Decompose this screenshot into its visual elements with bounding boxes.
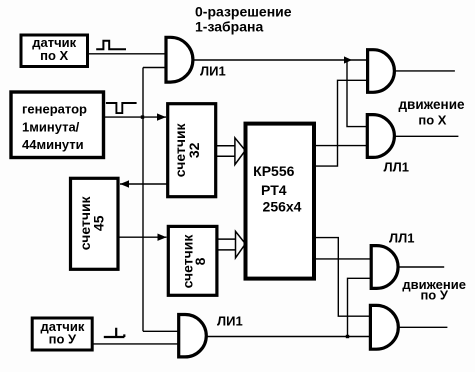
wire trunk to bottom LI1 upper input [143,330,179,332]
svg-text:ЛЛ1: ЛЛ1 [384,160,409,175]
gate LL1b (top right lower) [367,115,394,158]
svg-text:по Х: по Х [418,112,446,127]
wire generator output to counter32 [103,116,166,118]
svg-text:ЛИ1: ЛИ1 [217,313,243,328]
junction dot bottom branch [346,335,349,338]
wire sensorX to LI1 top input [88,53,166,55]
svg-text:движение: движение [398,97,465,112]
box sensor Y [32,318,92,350]
wire gate LL1b output [396,135,459,137]
wire trunk to LI1 top lower input [143,67,166,69]
svg-text:КР556: КР556 [253,163,294,179]
bus arrow counter32 to ROM [217,138,245,165]
svg-text:ЛИ1: ЛИ1 [200,63,226,78]
svg-text:32: 32 [186,142,202,158]
bus arrow counter8 to ROM [217,231,246,258]
svg-text:45: 45 [91,215,107,231]
wire gate LL1d output [399,326,448,328]
box ROM KR556 [246,124,315,279]
svg-text:по У: по У [420,288,448,303]
box counter8 [168,226,217,295]
box counter32 [168,104,216,197]
gate LI1 top [166,37,193,82]
gate LL1a (top right upper) [368,50,395,93]
gate LI1 bottom [179,315,207,357]
svg-text:ЛЛ1: ЛЛ1 [389,230,414,245]
wire branch up to gate LL1c lower input [348,278,371,336]
junction dot generator line [141,115,144,118]
box generator [11,92,104,158]
pulse symbol sensor X [96,41,126,50]
wire counter45 to counter8 [119,236,167,238]
wire bottom LI1 output to gate LL1d lower input [208,336,370,338]
wire vertical branch to gate LL1b upper input [347,60,368,127]
wire LI1 top output to gate LL1a upper input [194,59,368,61]
svg-text:44минути: 44минути [22,137,84,152]
wire ROM out3 down to gate LL1d upper input [315,238,370,317]
wire gate LL1c output [398,266,445,268]
arrowhead into counter8 [158,234,167,241]
box counter45 [71,178,119,269]
svg-text:по У: по У [49,332,77,347]
wire counter32 to counter45 [120,183,167,185]
svg-text:1-забрана: 1-забрана [195,18,263,34]
svg-text:РТ4: РТ4 [261,182,287,198]
arrowhead into counter45 [120,180,129,187]
svg-text:генератор: генератор [22,102,87,117]
pulse symbol generator [106,103,137,113]
wire ROM out1 to gate LL1b lower input [315,145,368,147]
svg-text:256х4: 256х4 [263,198,302,214]
svg-text:0-разрешение: 0-разрешение [195,3,292,19]
wire sensorY output to bottom LI1 lower input [94,343,179,345]
arrowhead junction on LI1 output line [344,56,352,63]
svg-text:по Х: по Х [40,48,68,63]
wire gate LL1a output [396,70,455,72]
box sensor X [21,35,88,67]
pulse symbol sensor Y [104,328,125,337]
svg-text:1минута/: 1минута/ [22,119,80,134]
gate LL1c (bottom right upper) [371,246,398,289]
arrowhead into counter32 [157,113,166,120]
svg-text:8: 8 [192,257,208,265]
wire ROM out2 up to gate LL1a lower input [315,80,368,166]
gate LL1d (bottom right lower) [370,305,398,349]
wire trunk generator net vertical [142,68,144,332]
wire ROM out4 to gate LL1c upper input [315,258,370,260]
